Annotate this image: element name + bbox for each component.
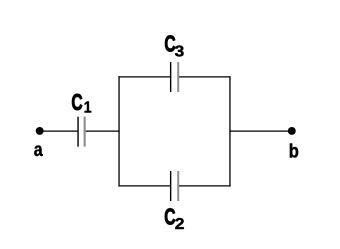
wire node right to terminal b <box>229 130 292 132</box>
svg-text:3: 3 <box>175 42 185 60</box>
terminal a <box>36 127 44 135</box>
label C3 <box>164 32 184 61</box>
label C1 <box>71 90 92 116</box>
capacitor C3 <box>170 62 179 92</box>
node left vertical wire <box>118 76 120 186</box>
svg-text:1: 1 <box>84 99 93 117</box>
top wire left segment to C3 <box>118 76 170 78</box>
top wire right segment from C3 <box>179 76 231 78</box>
terminal b <box>288 127 296 135</box>
capacitor C1 <box>77 117 85 147</box>
svg-text:a: a <box>34 139 44 161</box>
node right vertical wire <box>229 76 231 186</box>
svg-text:2: 2 <box>175 215 185 233</box>
label C2 <box>164 205 184 233</box>
svg-text:C: C <box>71 90 82 116</box>
svg-text:b: b <box>289 140 299 162</box>
bottom wire right segment from C2 <box>179 185 231 187</box>
wire C1 right plate to node left <box>86 130 120 132</box>
svg-text:C: C <box>164 205 175 231</box>
capacitor C2 <box>170 171 179 201</box>
wire a to C1 left plate <box>40 130 78 132</box>
bottom wire left segment to C2 <box>118 185 170 187</box>
